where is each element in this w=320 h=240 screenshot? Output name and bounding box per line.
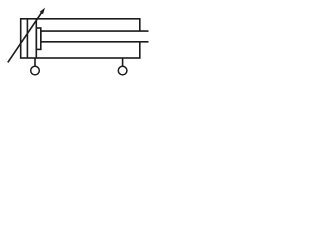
cushion adjust arrow — [8, 11, 43, 63]
piston — [35, 19, 37, 58]
left port circle — [31, 66, 40, 75]
pneumatic cylinder schematic — [0, 0, 157, 90]
right port circle — [118, 66, 127, 75]
left port stem — [34, 58, 36, 66]
piston rod — [41, 31, 149, 42]
cushion block — [36, 28, 41, 49]
cylinder body — [21, 19, 140, 58]
cushion chamber wall — [26, 19, 28, 58]
right port stem — [122, 58, 124, 66]
